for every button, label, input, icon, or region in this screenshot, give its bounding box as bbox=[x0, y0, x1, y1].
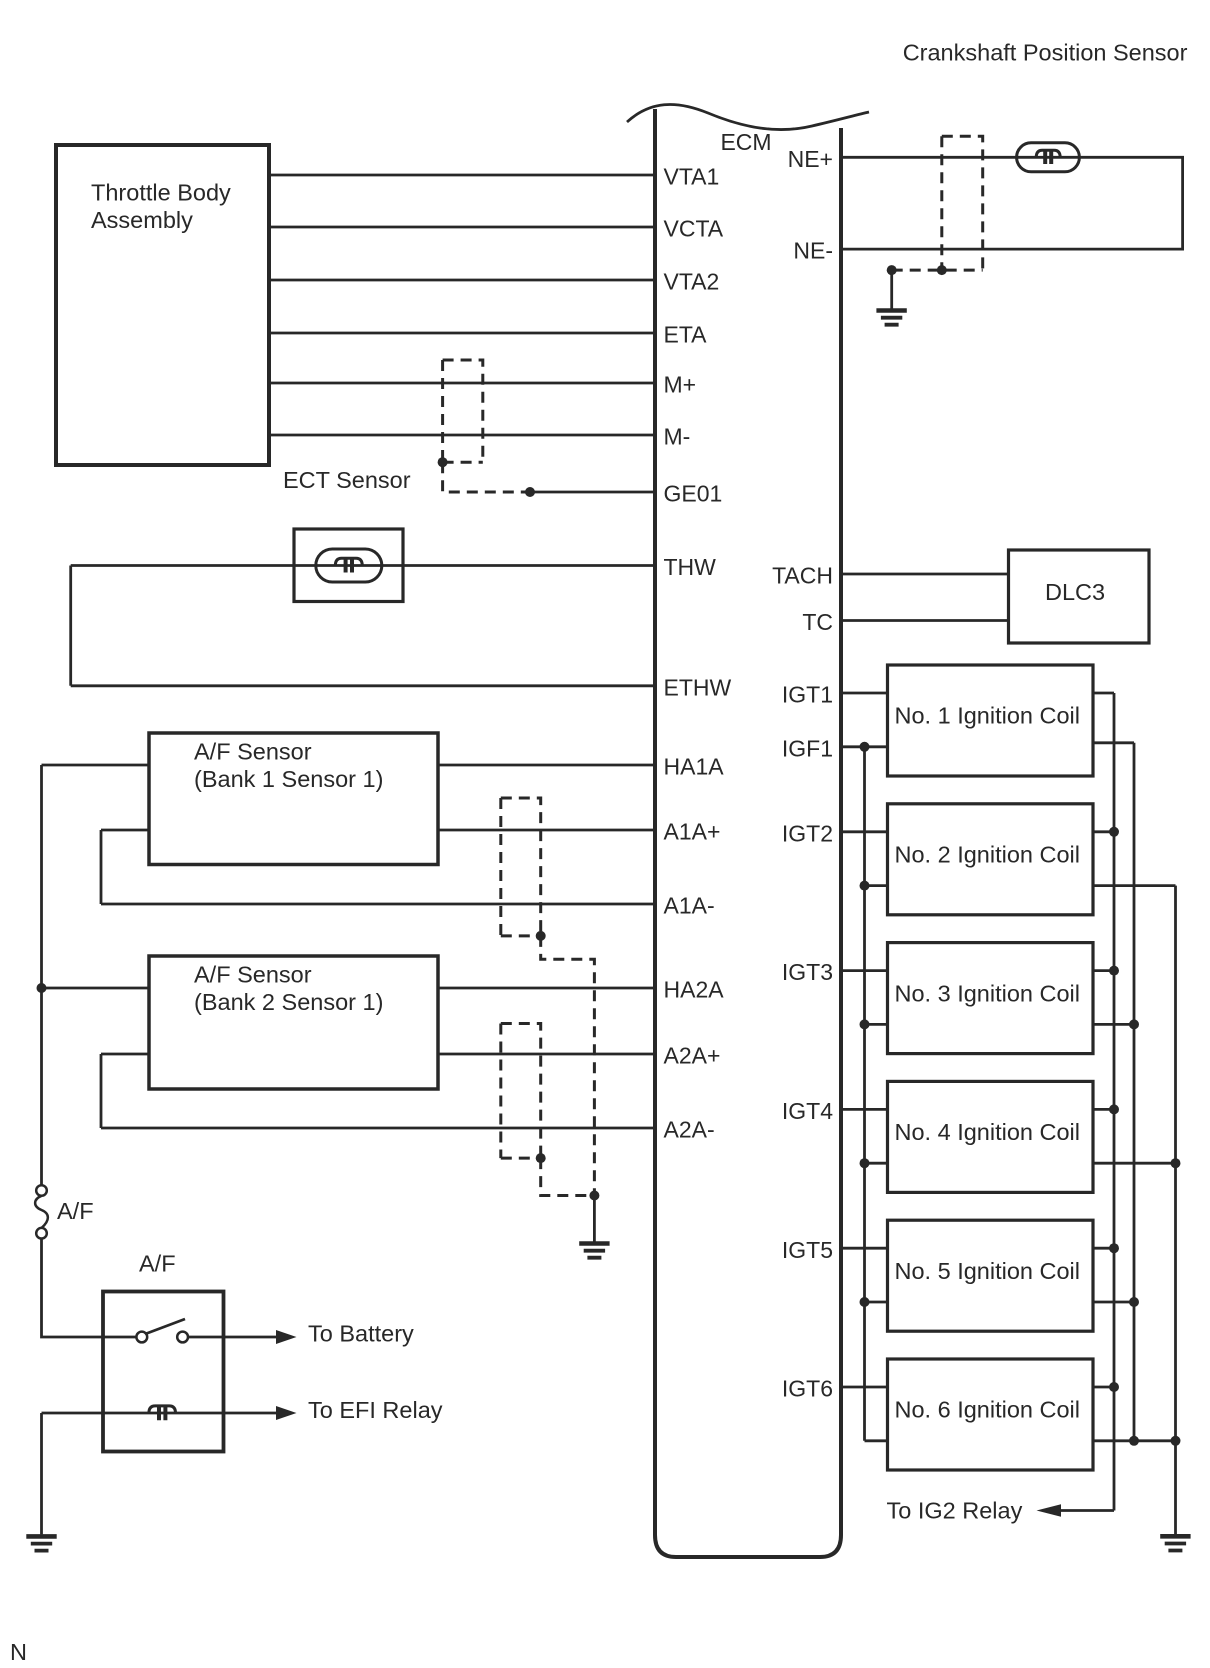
svg-text:ECM: ECM bbox=[720, 129, 771, 155]
svg-text:A/F: A/F bbox=[57, 1198, 94, 1224]
svg-text:Assembly: Assembly bbox=[91, 207, 193, 233]
svg-text:Crankshaft Position Sensor: Crankshaft Position Sensor bbox=[903, 40, 1188, 66]
svg-text:A2A+: A2A+ bbox=[664, 1043, 721, 1069]
svg-text:IGT5: IGT5 bbox=[782, 1237, 833, 1263]
svg-text:THW: THW bbox=[664, 554, 717, 580]
svg-text:(Bank 2 Sensor 1): (Bank 2 Sensor 1) bbox=[194, 989, 383, 1015]
svg-text:To Battery: To Battery bbox=[308, 1321, 414, 1347]
svg-text:A/F Sensor: A/F Sensor bbox=[194, 962, 312, 988]
svg-text:(Bank 1 Sensor 1): (Bank 1 Sensor 1) bbox=[194, 766, 383, 792]
svg-text:IGT2: IGT2 bbox=[782, 820, 833, 846]
svg-text:NE-: NE- bbox=[793, 238, 833, 264]
svg-text:To IG2 Relay: To IG2 Relay bbox=[887, 1498, 1023, 1524]
svg-text:A/F Sensor: A/F Sensor bbox=[194, 739, 312, 765]
svg-text:VTA1: VTA1 bbox=[664, 164, 720, 190]
svg-text:A2A-: A2A- bbox=[664, 1117, 715, 1143]
svg-text:VCTA: VCTA bbox=[664, 216, 724, 242]
svg-text:No. 1 Ignition Coil: No. 1 Ignition Coil bbox=[895, 703, 1081, 729]
svg-text:M+: M+ bbox=[664, 372, 697, 398]
svg-text:No. 4 Ignition Coil: No. 4 Ignition Coil bbox=[895, 1119, 1081, 1145]
svg-text:To EFI Relay: To EFI Relay bbox=[308, 1397, 443, 1423]
svg-text:TC: TC bbox=[802, 609, 833, 635]
svg-text:IGT6: IGT6 bbox=[782, 1376, 833, 1402]
svg-text:M-: M- bbox=[664, 424, 691, 450]
svg-text:HA2A: HA2A bbox=[664, 977, 725, 1003]
svg-text:No. 6 Ignition Coil: No. 6 Ignition Coil bbox=[895, 1397, 1081, 1423]
svg-text:IGT3: IGT3 bbox=[782, 959, 833, 985]
svg-text:A/F: A/F bbox=[139, 1251, 176, 1277]
svg-text:IGT4: IGT4 bbox=[782, 1098, 833, 1124]
svg-text:TACH: TACH bbox=[772, 563, 833, 589]
svg-text:VTA2: VTA2 bbox=[664, 269, 720, 295]
svg-text:A1A-: A1A- bbox=[664, 893, 715, 919]
svg-text:No. 5 Ignition Coil: No. 5 Ignition Coil bbox=[895, 1258, 1081, 1284]
svg-text:Throttle Body: Throttle Body bbox=[91, 180, 231, 206]
svg-text:GE01: GE01 bbox=[664, 481, 723, 507]
svg-text:No. 3 Ignition Coil: No. 3 Ignition Coil bbox=[895, 980, 1081, 1006]
svg-text:A1A+: A1A+ bbox=[664, 819, 721, 845]
svg-text:N: N bbox=[10, 1639, 27, 1665]
svg-text:ETA: ETA bbox=[664, 322, 708, 348]
svg-text:DLC3: DLC3 bbox=[1045, 579, 1105, 605]
svg-text:IGT1: IGT1 bbox=[782, 682, 833, 708]
svg-text:No. 2 Ignition Coil: No. 2 Ignition Coil bbox=[895, 842, 1081, 868]
svg-text:ECT Sensor: ECT Sensor bbox=[283, 467, 411, 493]
svg-text:IGF1: IGF1 bbox=[782, 735, 833, 761]
svg-text:NE+: NE+ bbox=[788, 146, 833, 172]
svg-text:HA1A: HA1A bbox=[664, 754, 725, 780]
svg-text:ETHW: ETHW bbox=[664, 674, 732, 700]
